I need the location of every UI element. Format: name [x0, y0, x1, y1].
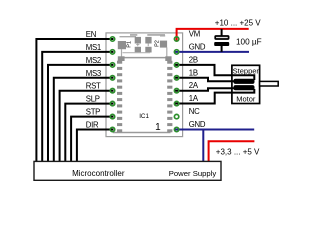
svg-text:Stepper: Stepper — [233, 66, 260, 75]
svg-text:P1: P1 — [127, 41, 133, 48]
motor coil 1 — [234, 79, 255, 84]
trace bottom — [113, 132, 171, 134]
trace top B — [160, 35, 165, 37]
smd pad column right — [167, 61, 172, 133]
capacitor C1 plate minus — [214, 42, 229, 46]
wire MS2 — [48, 65, 113, 162]
capacitor C1 plate plus — [215, 36, 228, 39]
svg-text:Motor: Motor — [236, 94, 256, 103]
driver board IC1 outline — [106, 33, 183, 137]
pads left column — [110, 37, 114, 132]
motor coil 2 — [234, 85, 255, 90]
svg-text:VM: VM — [189, 30, 200, 39]
svg-text:1: 1 — [155, 122, 161, 133]
svg-text:1A: 1A — [189, 94, 199, 103]
wire VM red — [177, 29, 249, 41]
svg-text:EN: EN — [86, 30, 96, 39]
component P1 body — [118, 41, 126, 49]
P1 lead — [121, 49, 123, 57]
svg-text:NC: NC — [189, 107, 200, 116]
trace top A — [120, 36, 137, 38]
trace mid — [123, 52, 151, 54]
trace long with end pads — [121, 57, 168, 59]
svg-text:GND: GND — [189, 42, 206, 51]
svg-text:Power Supply: Power Supply — [169, 169, 217, 178]
wire MS1 — [42, 52, 113, 162]
pads right column — [174, 37, 178, 132]
svg-text:100 µF: 100 µF — [236, 37, 262, 46]
wire MS3 — [54, 78, 114, 162]
svg-text:P2: P2 — [155, 40, 161, 47]
svg-text:MS2: MS2 — [86, 56, 101, 65]
capacitor C1 lead bottom — [221, 46, 223, 52]
smd cap pair left — [135, 37, 141, 44]
wire EN — [36, 39, 113, 162]
wire 2B — [175, 65, 254, 80]
wire STP — [71, 117, 113, 162]
wire SLP — [65, 104, 113, 162]
svg-text:GND: GND — [189, 120, 206, 129]
wire 2A — [175, 88, 236, 91]
svg-text:MS3: MS3 — [86, 69, 101, 78]
P2 lead — [166, 47, 168, 56]
svg-text:STP: STP — [86, 108, 100, 117]
smd cap pair right — [145, 37, 151, 44]
svg-text:1B: 1B — [189, 68, 198, 77]
svg-text:Microcontroller: Microcontroller — [72, 169, 125, 178]
wire GND blue drop to supply — [202, 130, 204, 162]
svg-text:SLP: SLP — [86, 95, 100, 104]
svg-text:2A: 2A — [189, 81, 199, 90]
microcontroller / power supply box — [34, 161, 221, 180]
stepper motor box — [232, 65, 260, 103]
wire 1B — [175, 78, 236, 82]
svg-text:DIR: DIR — [86, 121, 99, 130]
wire GND blue bottom — [175, 129, 254, 131]
wire RST — [60, 91, 114, 162]
wire +V red supply — [209, 141, 255, 161]
svg-text:+10 ... +25 V: +10 ... +25 V — [215, 19, 261, 28]
motor shaft — [260, 81, 279, 86]
svg-text:+3,3 ... +5 V: +3,3 ... +5 V — [216, 148, 260, 157]
svg-text:RST: RST — [86, 82, 101, 91]
wire 1A — [175, 89, 254, 104]
capacitor C1 lead top — [221, 29, 223, 36]
wire GND blue top — [175, 51, 249, 53]
wire DIR — [77, 130, 114, 162]
svg-text:2B: 2B — [189, 55, 198, 64]
svg-text:IC1: IC1 — [139, 113, 149, 120]
smd pad column left — [117, 61, 122, 133]
trace top edge segments — [130, 34, 165, 36]
svg-text:MS1: MS1 — [86, 43, 101, 52]
component P2 body — [160, 41, 167, 48]
